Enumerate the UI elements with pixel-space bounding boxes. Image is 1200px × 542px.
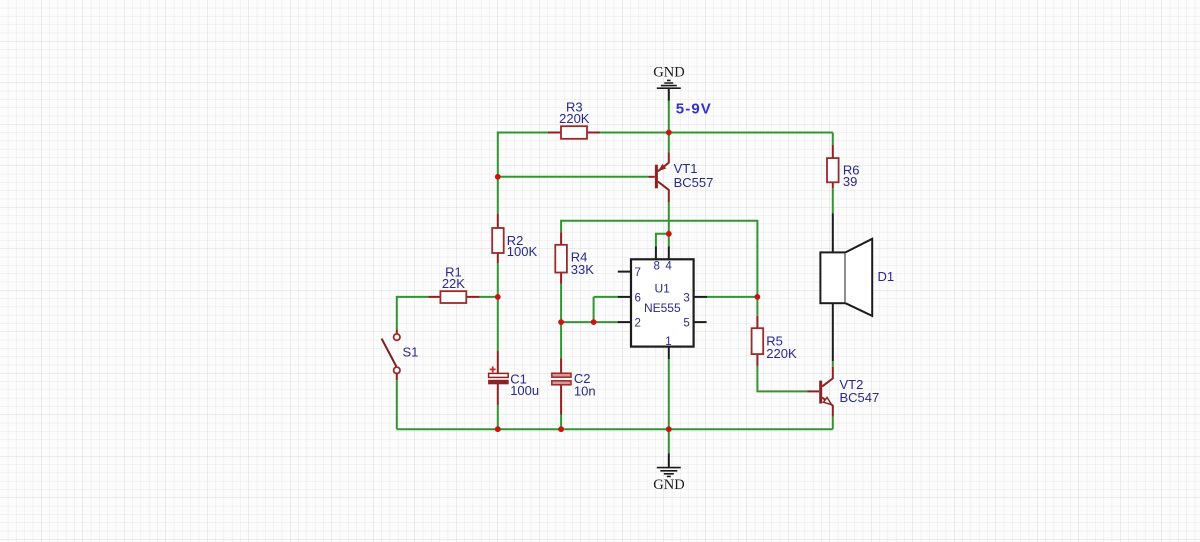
svg-text:7: 7 — [635, 267, 641, 279]
U1 pin 1 stub — [668, 347, 670, 359]
wire pin1 down to rail — [668, 359, 670, 429]
wire R6 top lead green — [832, 133, 834, 145]
resistor R3 — [548, 99, 600, 139]
svg-text:100u: 100u — [510, 383, 539, 398]
svg-text:S1: S1 — [403, 345, 419, 360]
svg-text:5: 5 — [683, 318, 689, 330]
junction VT1 collector / pins 8 4 — [666, 231, 672, 237]
svg-text:4: 4 — [665, 261, 672, 273]
junction R4 bottom pin2 — [558, 319, 564, 325]
op-amp U1 NE555 box — [631, 259, 694, 346]
capacitor C2 — [552, 359, 596, 415]
U1 pin 4 stub — [668, 246, 670, 259]
junction C1 bottom rail — [495, 426, 501, 432]
wire rail to ground stem — [668, 429, 670, 453]
svg-text:U1: U1 — [655, 282, 671, 296]
wire top rail left segment — [498, 132, 548, 134]
wire R6 bottom to speaker — [832, 188, 834, 213]
wire pin6 jog vertical — [593, 297, 595, 322]
junction pin6 jog — [591, 319, 597, 325]
svg-text:10n: 10n — [574, 384, 596, 399]
svg-text:220K: 220K — [559, 111, 590, 126]
wire S1 bottom down — [396, 380, 398, 429]
svg-text:NE555: NE555 — [644, 301, 681, 315]
wire VT2 emitter to rail — [832, 417, 834, 429]
svg-text:GND: GND — [653, 477, 684, 493]
svg-text:33K: 33K — [571, 262, 594, 277]
U1 pin 7 stub — [618, 271, 631, 273]
wire VT1 collector down to pin junction — [668, 202, 670, 246]
svg-text:BC557: BC557 — [674, 175, 714, 190]
U1 pin 3 stub — [694, 296, 708, 298]
U1 pin 2 stub — [618, 321, 631, 323]
wire node to C2 top — [560, 322, 562, 358]
U1 pin 6 stub — [618, 296, 631, 298]
wire pin3 to node — [707, 296, 757, 298]
wire C2 bottom to rail — [560, 415, 562, 430]
ground GND bottom symbol — [653, 454, 684, 493]
junction pin3 R5 node — [755, 294, 761, 300]
wire R2 bottom to C1 top — [497, 263, 499, 351]
wire pin6 horizontal — [594, 296, 618, 298]
svg-text:6: 6 — [635, 292, 641, 304]
svg-text:22K: 22K — [442, 276, 465, 291]
transistor VT2 — [807, 367, 879, 417]
resistor R5 — [752, 316, 797, 366]
wire C1 bottom to rail — [497, 405, 499, 429]
svg-text:100K: 100K — [507, 244, 538, 259]
wire node down to S1 — [396, 296, 398, 330]
switch S1 — [382, 329, 419, 380]
wire bottom rail — [397, 428, 833, 430]
wire power stem green — [668, 101, 670, 133]
transistor VT1 — [648, 152, 713, 202]
svg-text:BC547: BC547 — [840, 390, 880, 405]
capacitor C1 — [489, 351, 540, 405]
U1 pin 8 stub — [655, 246, 657, 259]
svg-text:8: 8 — [653, 261, 659, 273]
svg-text:2: 2 — [635, 318, 641, 330]
svg-text:5-9V: 5-9V — [676, 100, 712, 117]
wire R1 right to node — [480, 296, 498, 298]
junction R1 R2 C1 node — [495, 294, 501, 300]
svg-text:GND: GND — [653, 65, 684, 81]
junction ground stem rail — [666, 426, 672, 432]
resistor R2 — [492, 214, 537, 263]
junction top rail / power — [666, 130, 672, 136]
wire pin8 jog — [656, 234, 669, 247]
wire R4 bottom lead green — [560, 284, 562, 323]
svg-text:1: 1 — [665, 336, 671, 348]
svg-text:D1: D1 — [878, 269, 895, 284]
resistor R1 — [428, 264, 479, 303]
wire top rail right segment — [600, 132, 833, 134]
wire R5 bottom to VT2 base — [757, 366, 807, 392]
resistor R4 — [555, 232, 594, 283]
wire R4 top to pin3 node — [561, 221, 757, 316]
svg-text:VT1: VT1 — [674, 161, 698, 176]
wire left drop from top rail to R2 — [497, 132, 499, 215]
wire VT1 base wire — [498, 176, 649, 178]
svg-text:39: 39 — [843, 174, 857, 189]
wire R1 left — [397, 296, 429, 298]
svg-text:3: 3 — [683, 292, 689, 304]
wire speaker to VT2 collector — [832, 361, 834, 367]
junction C2 bottom rail — [558, 426, 564, 432]
wire VT1 emitter drop — [668, 133, 670, 153]
U1 pin 5 stub — [694, 321, 707, 323]
speaker D1 — [820, 213, 894, 361]
ground GND top symbol — [653, 65, 684, 101]
resistor R6 — [827, 145, 860, 189]
svg-text:220K: 220K — [766, 346, 797, 361]
wire pin2 horizontal — [561, 321, 618, 323]
junction left rail / VT1 base — [495, 174, 501, 180]
